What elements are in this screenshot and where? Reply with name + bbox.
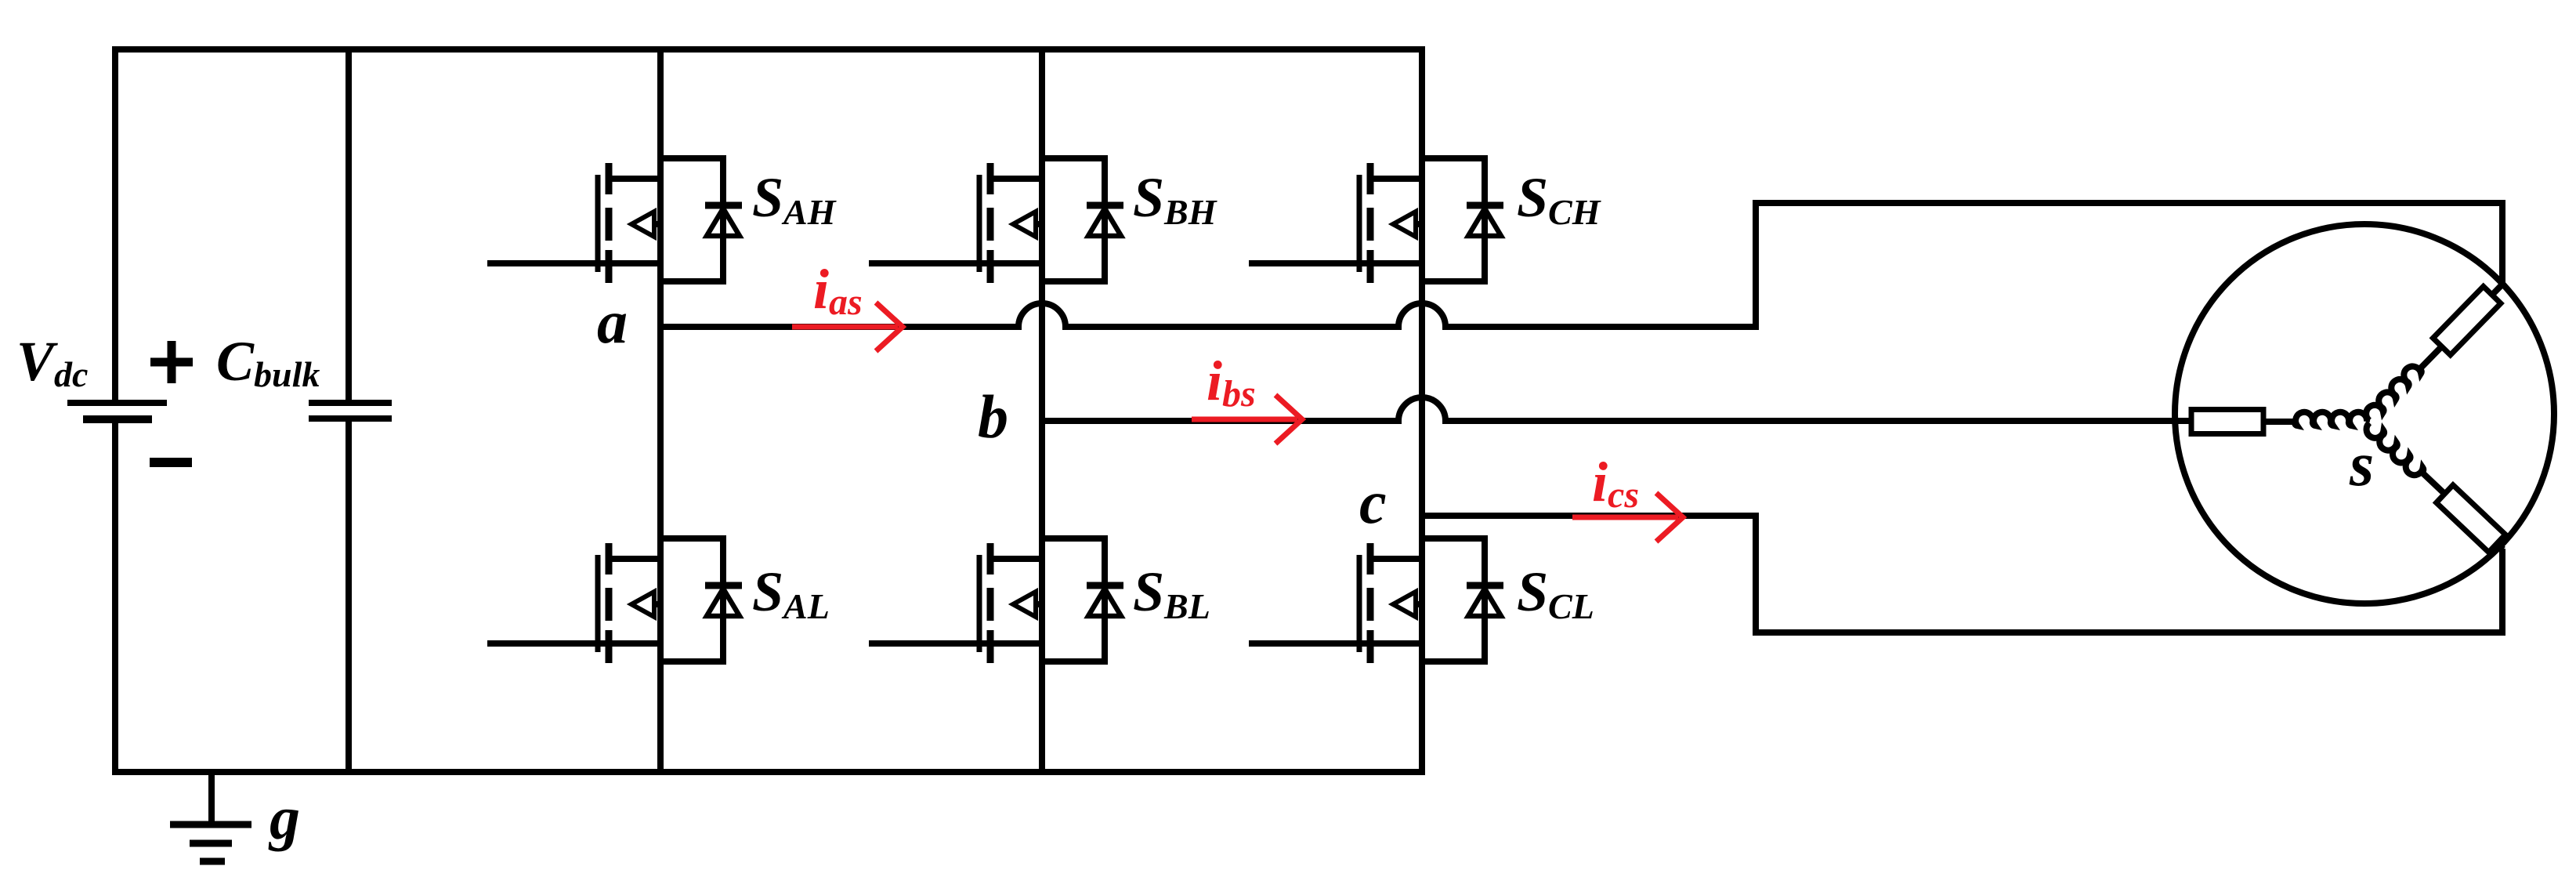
- wire: left bus lower segment: [112, 421, 118, 775]
- ground bar 3: [200, 858, 225, 865]
- stator winding phase a (coil + resistor): [2361, 275, 2512, 429]
- stator winding phase c (coil + resistor): [2361, 414, 2512, 558]
- svg-text:b: b: [978, 382, 1008, 451]
- motor stator circle: [2175, 224, 2554, 603]
- svg-text:s: s: [2349, 430, 2374, 499]
- svg-text:c: c: [1359, 468, 1387, 536]
- wire: bottom DC- rail: [112, 769, 1425, 775]
- current arrow i_bs: [1192, 395, 1302, 444]
- wire: phase c output: [1422, 516, 2502, 632]
- capacitor C_bulk bottom plate: [309, 415, 392, 422]
- transistor S_CH (MOSFET with body diode): [1249, 158, 1503, 283]
- wire: phase leg A: [657, 49, 664, 772]
- ground bar 2: [190, 840, 232, 847]
- transistor S_BH (MOSFET with body diode): [869, 158, 1123, 283]
- current arrow i_as: [792, 303, 903, 351]
- ground bar 1: [170, 821, 251, 828]
- wire: phase a output with hops over legs B and C: [660, 203, 2502, 327]
- capacitor C_bulk top plate: [309, 400, 392, 406]
- svg-text:Cbulk: Cbulk: [216, 330, 320, 394]
- svg-text:SAH: SAH: [752, 166, 837, 232]
- svg-text:SCH: SCH: [1517, 166, 1601, 232]
- minus sign: [150, 458, 192, 467]
- svg-text:g: g: [268, 784, 300, 852]
- transistor S_AH (MOSFET with body diode): [487, 158, 742, 283]
- plus sign: [150, 341, 193, 383]
- svg-text:SCL: SCL: [1517, 560, 1594, 626]
- svg-text:ibs: ibs: [1207, 350, 1256, 415]
- svg-text:ias: ias: [813, 258, 863, 323]
- svg-text:Vdc: Vdc: [16, 330, 88, 394]
- svg-text:SAL: SAL: [752, 560, 830, 626]
- wire: left bus upper segment: [112, 46, 118, 401]
- svg-text:a: a: [597, 288, 628, 356]
- wire: capacitor branch upper: [346, 49, 352, 401]
- wire: capacitor branch lower: [346, 422, 352, 772]
- transistor S_CL (MOSFET with body diode): [1249, 538, 1503, 663]
- wire: phase leg B: [1039, 49, 1045, 772]
- stator winding phase b (coil + resistor): [2191, 410, 2367, 434]
- ground stem: [208, 772, 215, 825]
- battery V_dc negative plate: [83, 415, 152, 423]
- svg-text:SBL: SBL: [1133, 560, 1210, 626]
- wire: phase b output with hop over leg C: [1042, 397, 2191, 421]
- svg-text:SBH: SBH: [1133, 166, 1217, 232]
- battery V_dc positive plate: [67, 400, 167, 406]
- current arrow i_cs: [1572, 493, 1683, 542]
- transistor S_AL (MOSFET with body diode): [487, 538, 742, 663]
- wire: phase leg C: [1419, 49, 1425, 772]
- wire: top DC+ rail: [112, 46, 1425, 53]
- transistor S_BL (MOSFET with body diode): [869, 538, 1123, 663]
- svg-text:ics: ics: [1592, 451, 1639, 516]
